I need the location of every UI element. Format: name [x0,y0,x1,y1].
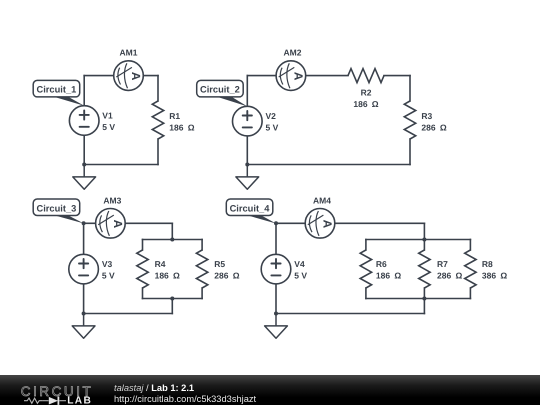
wire V3 bottom lead [83,284,85,314]
node c3 rail top junction [170,238,174,242]
node c4 rail top junction [422,238,426,242]
resistor R6 [360,250,371,288]
wire R1 bottom lead [157,139,159,165]
svg-text:R5: R5 [214,259,225,269]
svg-text:AM1: AM1 [120,47,138,57]
resistor R2 [348,69,384,83]
wire c2 top-left [247,75,276,77]
wire R5 bottom lead [201,288,203,299]
svg-text:R2: R2 [361,87,372,97]
svg-text:186 Ω: 186 Ω [155,270,180,280]
wire c4 feed up [423,299,425,314]
svg-text:5 V: 5 V [266,122,279,132]
svg-text:V1: V1 [102,110,113,120]
wire c3 feed down [171,223,173,239]
svg-text:V3: V3 [102,259,113,269]
svg-text:AM2: AM2 [284,47,302,57]
svg-text:286 Ω: 286 Ω [214,270,239,280]
voltage source V1 [69,106,99,136]
wire c1 bottom [84,164,158,166]
wire V1 bottom lead [83,135,85,165]
node c3 top junction [82,221,86,225]
node c3 rail bottom junction [170,297,174,301]
node c2 ground junction [245,163,249,167]
wire c2 top-right [384,75,410,77]
svg-text:5 V: 5 V [294,270,307,280]
svg-text:A: A [320,220,334,229]
ground c1 [73,165,96,190]
svg-text:A: A [129,72,143,81]
resistor R8 [465,250,476,288]
wire V3 top lead [83,223,85,254]
ground c4 [265,314,288,339]
wire R1 top lead [157,76,159,101]
wire R5 top lead [201,240,203,251]
wire c1 top-left [84,75,114,77]
resistor R1 [152,101,163,139]
wire c4 top rail [366,239,471,241]
wire R3 top lead [409,76,411,101]
node c3 ground junction [82,312,86,316]
ground c3 [72,314,95,339]
wire R8 bottom lead [469,288,471,299]
wire V2 bottom lead [246,136,248,165]
voltage source V3 [69,254,99,284]
wire V4 bottom lead [275,284,277,314]
ammeter AM4 [305,209,335,239]
svg-text:V2: V2 [266,111,277,121]
ammeter AM3 [96,209,126,239]
wire c4 top [335,222,425,224]
wire R6 top lead [365,240,367,251]
svg-text:R3: R3 [421,111,432,121]
wire R6 bottom lead [365,288,367,299]
wire R4 top lead [142,240,144,251]
svg-text:186 Ω: 186 Ω [376,270,401,280]
svg-text:R7: R7 [437,259,448,269]
svg-text:5 V: 5 V [102,270,115,280]
node label Circuit_4 [226,199,276,224]
wire R7 top lead [423,240,425,251]
wire c4 feed down [423,223,425,239]
voltage source V4 [261,254,291,284]
wire c4 bottom [276,313,424,315]
svg-text:LAB: LAB [67,395,92,405]
node label Circuit_3 [33,199,83,223]
svg-text:286 Ω: 286 Ω [437,270,462,280]
svg-text:Circuit_1: Circuit_1 [37,85,77,95]
node c4 ground junction [274,312,278,316]
wire c3 top [125,222,172,224]
node c4 rail bottom junction [422,297,426,301]
wire c3 feed up [171,299,173,314]
wire c2 bottom [247,164,410,166]
resistor R3 [404,101,415,139]
wire c3 bottom [84,313,173,315]
wire R4 bottom lead [142,288,144,299]
wire c2 top-mid [306,75,348,77]
wire V4 top lead [275,223,277,254]
resistor R4 [137,250,148,288]
CircuitLab logo [18,375,118,405]
svg-text:R6: R6 [376,259,387,269]
svg-text:V4: V4 [294,259,305,269]
resistor R5 [196,250,207,288]
wire c4 top-left [276,222,305,224]
svg-text:R1: R1 [169,111,180,121]
wire c3 top rail [143,239,203,241]
wire R7 bottom lead [423,288,425,299]
svg-text:186 Ω: 186 Ω [169,122,194,132]
svg-text:AM3: AM3 [103,195,121,205]
svg-text:AM4: AM4 [313,195,331,205]
node label Circuit_1 [33,80,84,105]
svg-text:386 Ω: 386 Ω [482,270,507,280]
svg-text:5 V: 5 V [102,122,115,132]
ammeter AM1 [114,61,144,91]
wire c4 bottom rail [366,298,471,300]
resistor R7 [419,250,430,288]
wire R3 bottom lead [409,139,411,165]
wire c3 bottom rail [143,298,203,300]
svg-text:186 Ω: 186 Ω [353,99,378,109]
voltage source V2 [233,106,263,136]
wire c1 top-right [143,75,158,77]
ground c2 [236,165,259,190]
node label Circuit_2 [197,80,248,106]
svg-text:Circuit_4: Circuit_4 [230,203,271,213]
wire c3 top-left [84,222,96,224]
svg-text:Circuit_2: Circuit_2 [200,85,240,95]
svg-text:A: A [111,220,125,229]
wire R8 top lead [469,240,471,251]
node c1 ground junction [82,163,86,167]
node c4 top junction [274,221,278,225]
svg-text:286 Ω: 286 Ω [421,122,446,132]
wire V1 top lead [83,76,85,106]
svg-text:R4: R4 [155,259,166,269]
svg-text:A: A [291,72,305,81]
svg-text:Circuit_3: Circuit_3 [37,203,77,213]
wire V2 top lead [246,76,248,107]
ammeter AM2 [276,61,306,91]
svg-text:R8: R8 [482,259,493,269]
